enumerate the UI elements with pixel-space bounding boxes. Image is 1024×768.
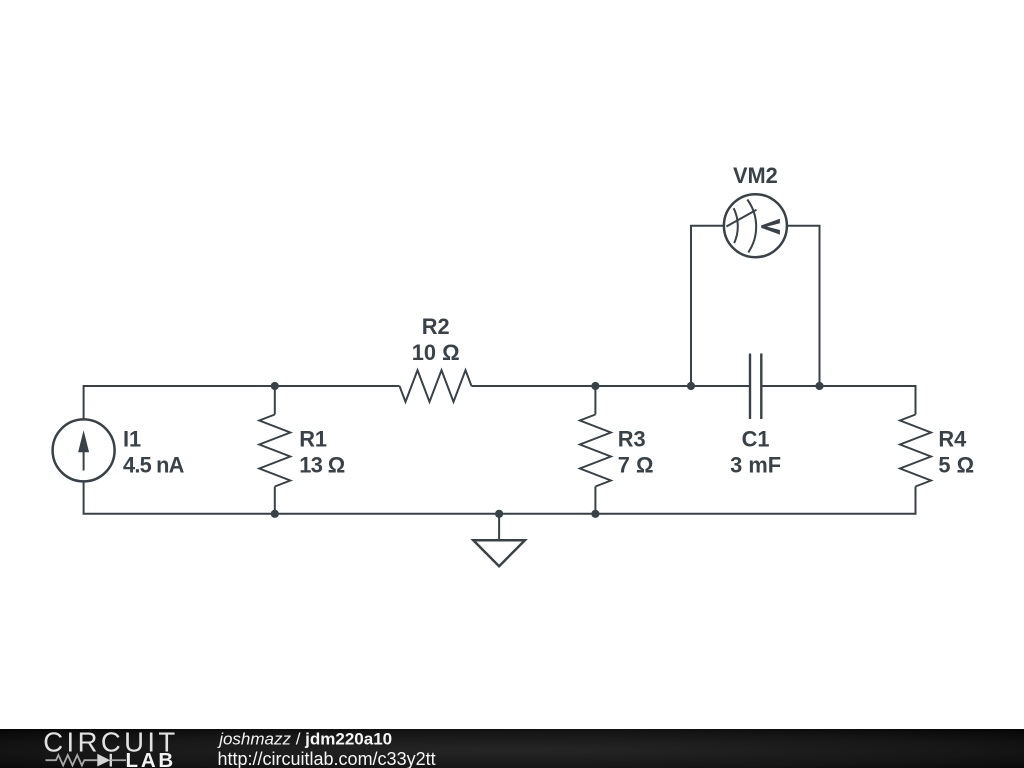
resistor R3	[580, 415, 611, 487]
wire bottom rail	[84, 482, 916, 514]
voltmeter VM2 meter face	[726, 200, 756, 253]
logo diode	[97, 754, 110, 767]
wire top left from I1 to R2	[84, 386, 400, 419]
wire VM2 left branch	[691, 226, 724, 386]
svg-text:10 Ω: 10 Ω	[412, 340, 460, 365]
ground symbol	[473, 540, 525, 566]
label R3	[618, 427, 654, 478]
svg-text:5 Ω: 5 Ω	[938, 452, 974, 477]
wire top right from C1 right plate to R4	[761, 386, 915, 415]
voltmeter VM2 circle	[724, 194, 787, 257]
svg-text:3 mF: 3 mF	[730, 452, 781, 477]
svg-text:4.5 nA: 4.5 nA	[123, 452, 185, 477]
node R3 bottom	[591, 510, 599, 518]
svg-text:R2: R2	[422, 314, 450, 339]
label R1	[299, 427, 345, 478]
label R2	[412, 314, 460, 365]
svg-text:R4: R4	[938, 427, 966, 452]
footer bar	[0, 729, 1024, 768]
svg-text:7 Ω: 7 Ω	[618, 452, 654, 477]
wire VM2 right branch	[787, 226, 820, 386]
svg-text:13 Ω: 13 Ω	[299, 452, 345, 477]
svg-text:joshmazz / jdm220a10: joshmazz / jdm220a10	[217, 730, 392, 749]
wire R1 top lead	[274, 386, 276, 415]
node R1 top	[271, 382, 279, 390]
voltmeter VM2 V glyph	[761, 219, 780, 235]
resistor R1	[259, 415, 290, 487]
capacitor C1 plates	[750, 354, 761, 420]
node VM2 left	[687, 382, 695, 390]
logo wire with resistor zigzag	[46, 755, 98, 765]
wire R3 top lead	[594, 386, 596, 415]
svg-text:http://circuitlab.com/c33y2tt: http://circuitlab.com/c33y2tt	[218, 749, 436, 768]
resistor R2	[400, 370, 472, 402]
node R3 top	[591, 382, 599, 390]
node ground	[495, 510, 503, 518]
wire R3 bottom lead	[594, 487, 596, 514]
resistor R4	[900, 415, 931, 487]
label I1	[123, 427, 185, 478]
wire ground stem	[498, 514, 500, 541]
current source I1 arrow	[78, 430, 89, 470]
svg-text:R3: R3	[618, 427, 646, 452]
svg-text:LAB: LAB	[126, 749, 177, 768]
label C1	[730, 427, 781, 478]
wire R1 bottom lead	[274, 487, 276, 514]
svg-text:I1: I1	[123, 427, 141, 452]
node R1 bottom	[271, 510, 279, 518]
wire top middle from R2 to C1 left plate	[472, 385, 751, 387]
svg-text:C1: C1	[742, 427, 770, 452]
svg-text:VM2: VM2	[733, 163, 778, 188]
label R4	[938, 427, 974, 478]
current source I1 circle	[53, 419, 115, 481]
node VM2 right	[815, 382, 823, 390]
svg-text:R1: R1	[299, 427, 327, 452]
